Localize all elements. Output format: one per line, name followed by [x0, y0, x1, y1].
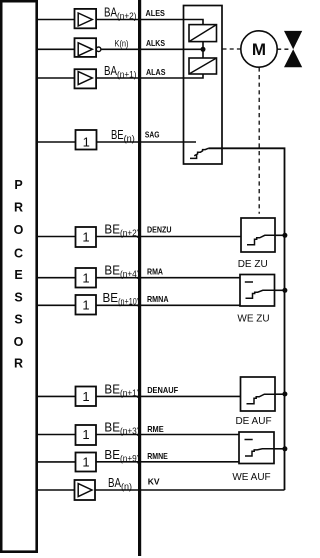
svg-text:1: 1	[83, 135, 90, 150]
svg-text:(n+2): (n+2)	[120, 228, 140, 238]
svg-text:DENZU: DENZU	[147, 225, 172, 235]
valve symbol	[284, 31, 302, 67]
svg-text:WE ZU: WE ZU	[237, 314, 269, 325]
svg-text:K(n): K(n)	[115, 38, 129, 48]
logic block 1 BE(n+10)	[76, 295, 97, 315]
svg-text:RME: RME	[147, 424, 164, 434]
svg-text:(n+3): (n+3)	[120, 426, 140, 436]
svg-text:O: O	[14, 335, 24, 349]
svg-text:(n+10): (n+10)	[118, 297, 139, 307]
logic block 1 BE(n+3)	[76, 425, 97, 445]
node DE ZU junction	[282, 233, 287, 238]
logic block 1 BE(n+9)	[76, 453, 97, 472]
wire row3 right ALAS	[96, 74, 203, 78]
svg-text:S: S	[14, 313, 22, 327]
wire DE ZU output	[275, 234, 285, 236]
node coil junction	[201, 47, 206, 52]
svg-text:1: 1	[82, 389, 89, 404]
wire row2 left K(n)	[38, 48, 75, 50]
svg-text:(n+4): (n+4)	[120, 269, 140, 279]
svg-text:O: O	[14, 223, 24, 237]
svg-text:ALKS: ALKS	[146, 38, 165, 48]
logic block 1 BE(n+2)	[76, 227, 97, 247]
wire row9 left BE(n+3)	[38, 434, 76, 436]
wire row5 left BE(n+2)	[38, 236, 76, 238]
svg-text:1: 1	[82, 270, 89, 285]
switch box WE ZU	[240, 275, 275, 307]
svg-text:RMA: RMA	[147, 267, 163, 277]
motor M1	[241, 31, 277, 67]
svg-text:BE: BE	[103, 290, 119, 305]
node WE AUF junction	[282, 446, 287, 451]
svg-text:RMNA: RMNA	[147, 294, 169, 304]
svg-text:1: 1	[82, 427, 89, 442]
svg-text:E: E	[14, 268, 22, 282]
svg-text:ALAS: ALAS	[146, 67, 166, 77]
svg-text:C: C	[14, 247, 23, 261]
svg-text:R: R	[14, 357, 23, 371]
wire row4 left BE(n)	[38, 141, 76, 143]
wire row2 right ALKS	[101, 48, 201, 50]
contactor block outline	[184, 6, 223, 165]
wire row10 right RMNE	[96, 461, 239, 463]
svg-text:R: R	[14, 201, 23, 215]
svg-text:KV: KV	[148, 477, 160, 487]
wire row5 right DENZU	[96, 236, 241, 238]
label PROCESSOR	[14, 178, 24, 371]
svg-text:(n+1): (n+1)	[120, 388, 140, 398]
label 1 blocks	[82, 135, 89, 470]
buffer gate BA(n+1)	[75, 69, 97, 88]
contactor coil ALES	[189, 25, 217, 42]
svg-text:DENAUF: DENAUF	[147, 385, 178, 395]
logic block 1 BE(n)	[76, 130, 97, 150]
svg-text:BE: BE	[104, 263, 120, 278]
wire WE ZU output	[275, 289, 285, 291]
signal column divider bus	[138, 0, 141, 556]
svg-text:ALES: ALES	[146, 8, 166, 18]
dashed link contactor to motor	[223, 48, 241, 50]
svg-text:(n): (n)	[124, 134, 135, 144]
svg-text:BA: BA	[108, 475, 121, 490]
svg-text:(n+2): (n+2)	[117, 11, 137, 21]
svg-text:1: 1	[82, 454, 89, 469]
wire row1 left BA(n+2)	[38, 19, 75, 21]
svg-text:DE AUF: DE AUF	[235, 416, 271, 427]
wire WE AUF output	[274, 448, 285, 450]
wire row11 right KV	[95, 489, 285, 491]
svg-text:RMNE: RMNE	[147, 451, 168, 461]
dashed link motor to DE ZU	[258, 67, 260, 213]
svg-text:BA: BA	[104, 5, 117, 20]
svg-text:BE: BE	[104, 420, 120, 435]
svg-text:P: P	[14, 178, 22, 192]
svg-text:BE: BE	[104, 381, 120, 396]
switch box WE AUF	[239, 432, 274, 464]
wire row4 right SAG	[97, 141, 197, 143]
wire row8 right DENAUF	[96, 395, 241, 397]
wire coil link	[202, 42, 204, 58]
dashed link motor to valve	[277, 48, 291, 50]
svg-text:SAG: SAG	[145, 130, 160, 140]
svg-text:BE: BE	[104, 447, 120, 462]
wire row9 right RME	[96, 434, 239, 436]
node WE ZU junction	[282, 288, 287, 293]
wire row7 left BE(n+10)	[38, 304, 76, 306]
svg-text:1: 1	[82, 298, 89, 313]
node DE AUF junction	[282, 392, 287, 397]
processor box	[1, 1, 37, 552]
logic block 1 BE(n+4)	[76, 268, 97, 288]
svg-text:S: S	[14, 291, 22, 305]
wire row8 left BE(n+1)	[38, 395, 76, 397]
wire row10 left BE(n+9)	[38, 461, 76, 463]
svg-text:WE AUF: WE AUF	[232, 472, 270, 483]
inverter gate K(n)	[75, 38, 101, 57]
svg-text:DE ZU: DE ZU	[238, 259, 268, 270]
svg-text:BA: BA	[104, 63, 117, 78]
svg-text:(n): (n)	[121, 482, 132, 492]
wire row6 right RMA	[96, 277, 240, 279]
wire DE AUF output	[275, 393, 285, 395]
svg-text:BE: BE	[111, 127, 124, 142]
svg-text:BE: BE	[104, 222, 120, 237]
logic block 1 BE(n+1)	[76, 387, 97, 407]
wire SAG output to right bus	[208, 148, 284, 490]
wire row7 right RMNA	[96, 304, 240, 306]
wire row6 left BE(n+4)	[38, 277, 76, 279]
buffer gate BA(n)	[75, 480, 96, 500]
svg-text:1: 1	[82, 230, 89, 245]
switch box DE ZU	[241, 218, 275, 252]
wire row1 right ALES	[96, 20, 203, 25]
svg-text:(n+1): (n+1)	[117, 70, 137, 80]
wire row3 left BA(n+1)	[38, 77, 75, 79]
svg-text:(n+9): (n+9)	[120, 453, 140, 463]
wire row11 left BA(n)	[38, 489, 75, 491]
buffer gate BA(n+2)	[75, 9, 97, 28]
switch box DE AUF	[241, 377, 276, 411]
limit switch SAG	[190, 148, 208, 158]
svg-text:M: M	[252, 40, 266, 59]
contactor coil ALAS	[189, 58, 217, 74]
